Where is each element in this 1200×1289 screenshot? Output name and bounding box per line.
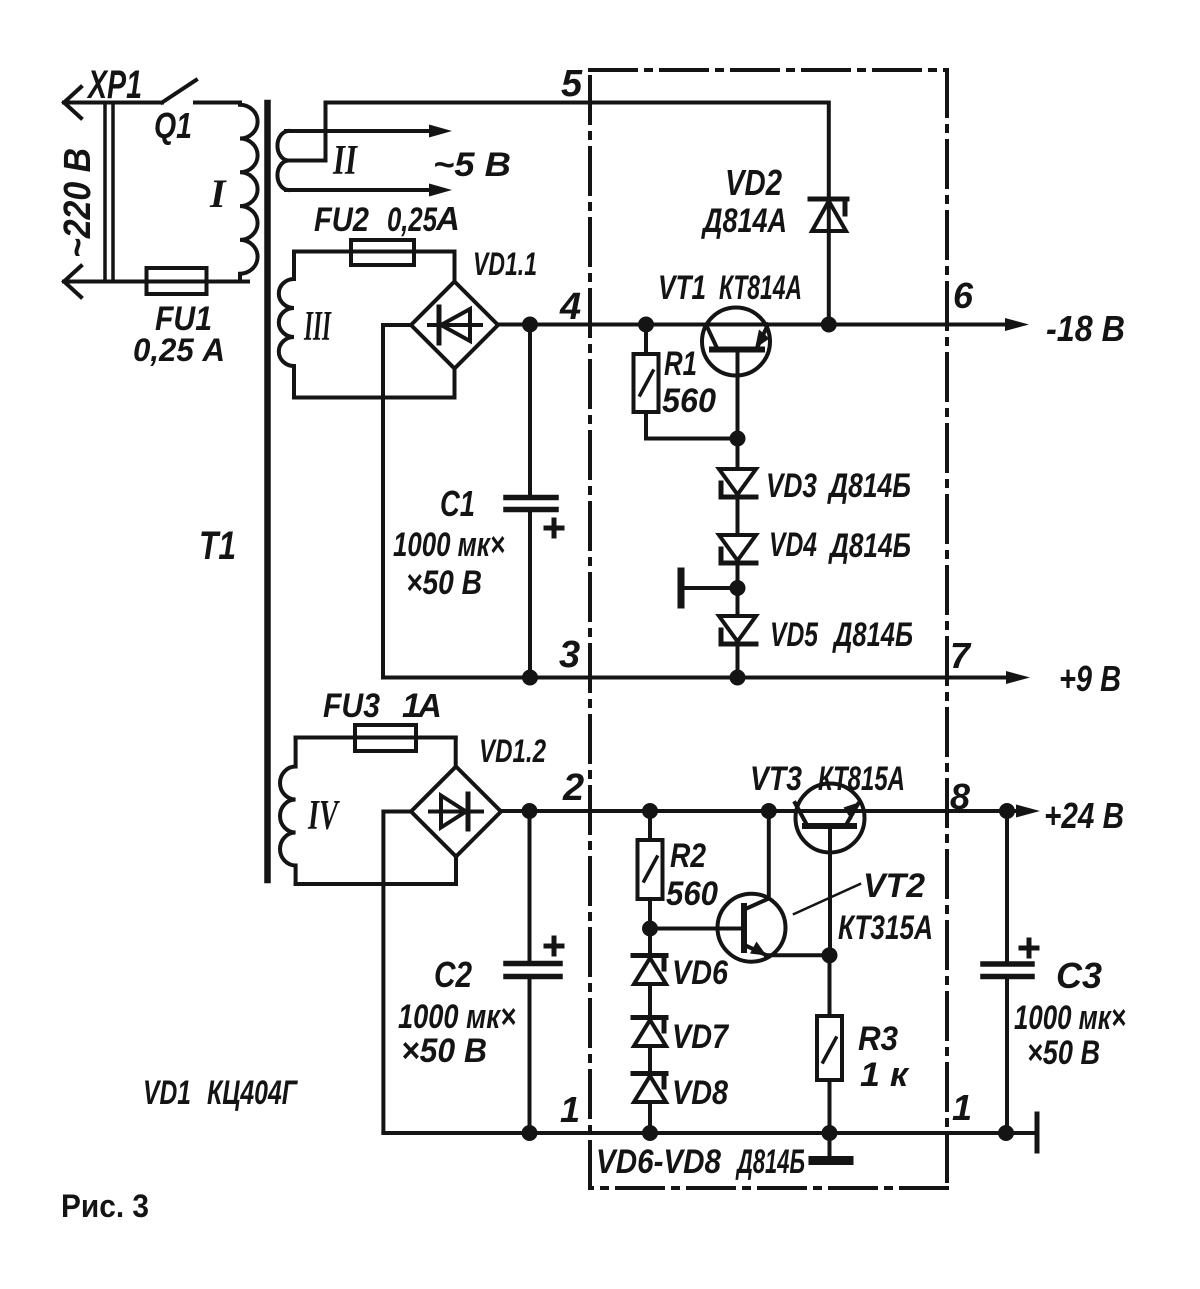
arrow ~5V top — [429, 125, 452, 138]
wire FU2 to bridge top — [453, 252, 457, 282]
junction C1 bottom — [522, 670, 538, 686]
svg-text:II: II — [332, 138, 358, 184]
wire winding II tap to node 5 — [288, 103, 326, 161]
chassis bar right end — [1035, 1114, 1040, 1151]
svg-text:Д814Б: Д814Б — [827, 467, 911, 505]
svg-text:560: 560 — [666, 875, 718, 913]
svg-text:FU3: FU3 — [323, 687, 380, 725]
zener VD5 — [719, 616, 756, 642]
junction R2 top — [642, 803, 658, 819]
transistor VT2 — [718, 894, 786, 962]
fuse FU2 — [351, 240, 414, 265]
wire output ~5V bottom — [286, 188, 433, 192]
wire R1 to VD3 node — [646, 437, 738, 441]
fuse FU1 — [147, 268, 207, 294]
wire mains bottom — [64, 280, 248, 284]
arrow -18V — [1005, 318, 1029, 331]
svg-text:+9 В: +9 В — [1059, 658, 1121, 699]
wire VT3 base down — [828, 828, 832, 955]
wire output ~5V top — [286, 129, 433, 133]
wire bridge VD1.2 minus down — [383, 812, 411, 1134]
svg-text:×50 В: ×50 В — [1027, 1034, 1100, 1072]
junction C3 bottom — [998, 1125, 1014, 1141]
svg-text:FU2: FU2 — [314, 201, 369, 239]
svg-text:Д814Б: Д814Б — [832, 616, 913, 654]
arrow +24V — [1016, 805, 1040, 818]
svg-text:КТ315А: КТ315А — [838, 909, 933, 947]
svg-text:R1: R1 — [664, 345, 697, 383]
svg-text:1000 мк×: 1000 мк× — [1014, 999, 1126, 1037]
svg-text:1: 1 — [952, 1087, 972, 1128]
svg-text:VD4: VD4 — [769, 526, 817, 564]
svg-text:2: 2 — [562, 767, 584, 809]
resistor R1 — [644, 325, 648, 355]
transistor VT3 — [796, 784, 865, 853]
junction chassis tap node — [730, 580, 746, 596]
arrow +9V — [1006, 671, 1030, 684]
svg-text:0,25: 0,25 — [387, 201, 438, 239]
fuse FU3 — [355, 725, 416, 751]
svg-text:~220 В: ~220 В — [57, 148, 99, 258]
arrow ~5V bottom — [429, 184, 452, 197]
wire VD2 to collector line — [827, 231, 831, 325]
chassis tap at VD4-VD5 node — [682, 586, 738, 590]
svg-text:Д814А: Д814А — [701, 202, 787, 240]
polarity plus C2 — [546, 944, 562, 949]
svg-text:Рис. 3: Рис. 3 — [61, 1188, 149, 1224]
zener VD7 — [648, 984, 652, 1018]
junction R2 bottom — [642, 921, 658, 937]
diode inside VD1.1 — [429, 323, 481, 327]
svg-text:VD6: VD6 — [672, 954, 729, 992]
svg-text:VD1: VD1 — [143, 1074, 191, 1112]
svg-text:4: 4 — [559, 286, 581, 328]
wire node 3 to +9V — [383, 676, 1010, 680]
resistor R2 — [648, 811, 652, 840]
junction R3 bottom — [822, 1125, 838, 1141]
wire mains top — [64, 101, 162, 105]
svg-text:5: 5 — [561, 63, 583, 105]
svg-text:7: 7 — [950, 635, 972, 676]
svg-text:R3: R3 — [858, 1020, 898, 1058]
svg-text:КТ814А: КТ814А — [719, 269, 802, 307]
transformer T1 winding IV — [280, 738, 296, 885]
wire FU3 to bridge top — [454, 738, 458, 767]
svg-text:КЦ404Г: КЦ404Г — [207, 1074, 299, 1112]
svg-text:6: 6 — [953, 275, 974, 316]
rectifier bridge VD1.2 — [411, 767, 501, 857]
svg-text:VD7: VD7 — [672, 1018, 730, 1056]
svg-text:C1: C1 — [440, 483, 475, 524]
diode inside VD1.2 — [430, 810, 482, 814]
junction VD8 bottom — [642, 1125, 658, 1141]
svg-text:C3: C3 — [1056, 955, 1102, 996]
switch Q1 — [162, 80, 196, 103]
svg-text:8: 8 — [950, 776, 970, 817]
svg-text:T1: T1 — [199, 524, 236, 568]
polarity plus C1 — [546, 526, 562, 531]
capacitor C1 — [528, 325, 532, 496]
svg-text:C2: C2 — [434, 954, 472, 995]
junction VD5 bottom — [730, 670, 746, 686]
ground symbol at R3 — [828, 1133, 832, 1157]
svg-text:VD5: VD5 — [770, 616, 819, 654]
wire bridge VD1.1 minus down — [383, 325, 411, 678]
svg-text:+24 В: +24 В — [1044, 795, 1124, 836]
wire node 5 — [326, 103, 829, 200]
wire winding III top to FU2 — [294, 250, 455, 254]
zener VD6 — [648, 929, 652, 956]
svg-text:А: А — [417, 687, 442, 724]
svg-text:III: III — [303, 304, 331, 350]
wire VD4 to VD5 — [736, 565, 740, 616]
svg-text:1: 1 — [560, 1089, 580, 1130]
svg-text:Д814Б: Д814Б — [735, 1143, 805, 1181]
transformer T1 winding III — [279, 252, 294, 398]
junction C3 top — [999, 803, 1015, 819]
svg-text:Д814Б: Д814Б — [828, 527, 911, 565]
connector XP1 plug lines — [103, 103, 107, 282]
capacitor C2 — [528, 811, 532, 961]
svg-text:VD1.2: VD1.2 — [479, 733, 546, 769]
svg-text:IV: IV — [307, 793, 340, 839]
svg-text:VD3: VD3 — [766, 467, 817, 505]
svg-text:VD2: VD2 — [725, 162, 782, 203]
junction VD2 node — [821, 317, 837, 333]
wire node 2 to +24V — [501, 809, 1020, 813]
transformer T1 winding II — [277, 131, 288, 190]
svg-text:Q1: Q1 — [154, 105, 192, 146]
transistor VT1 — [702, 308, 770, 376]
junction VT1 base node — [730, 431, 746, 447]
svg-text:~5 В: ~5 В — [433, 146, 511, 184]
junction R1 top — [638, 317, 654, 333]
svg-text:×50 В: ×50 В — [401, 1032, 487, 1070]
capacitor C3 — [1005, 811, 1009, 962]
svg-text:560: 560 — [662, 382, 716, 420]
wire node 4 to -18V — [498, 323, 1010, 327]
wire VT1 base down — [736, 352, 740, 439]
svg-text:КТ815А: КТ815А — [818, 760, 905, 798]
svg-text:0,25 А: 0,25 А — [133, 332, 225, 368]
svg-text:1000 мк×: 1000 мк× — [398, 998, 516, 1036]
svg-text:1000 мк×: 1000 мк× — [393, 526, 505, 564]
wire node 1 — [383, 1131, 1037, 1135]
svg-text:×50 В: ×50 В — [406, 564, 482, 602]
transformer T1 core — [264, 103, 271, 880]
junction C2 top — [522, 803, 538, 819]
zener VD4 — [736, 499, 740, 535]
svg-text:А: А — [435, 200, 460, 237]
junction C1 top — [522, 317, 538, 333]
zener VD2 — [827, 199, 831, 231]
svg-text:1 к: 1 к — [860, 1056, 910, 1094]
svg-text:VT1: VT1 — [658, 269, 706, 307]
wire winding III bottom to bridge bottom — [294, 369, 455, 398]
wire winding IV bottom to bridge bottom — [296, 857, 456, 885]
svg-text:VD1.1: VD1.1 — [473, 246, 537, 282]
zener VD8 — [648, 1046, 652, 1074]
wire R2 to VT2 base — [650, 927, 744, 931]
junction C2 bottom — [522, 1125, 538, 1141]
resistor R3 — [828, 955, 832, 1016]
callout line VT2 — [794, 884, 860, 914]
zener VD3 — [736, 439, 740, 470]
svg-text:XP1: XP1 — [87, 63, 142, 107]
wire VT2 collector up — [767, 811, 771, 899]
node XP1 arrow bottom — [64, 266, 81, 297]
dash-dot module border — [590, 70, 947, 1188]
node XP1 arrow top — [64, 87, 81, 118]
svg-text:VD8: VD8 — [672, 1074, 728, 1112]
polarity plus C3 — [1021, 946, 1037, 951]
wire VT2 emitter to VT3 base node — [766, 953, 830, 957]
junction VT2 collector — [761, 803, 777, 819]
svg-text:VT3: VT3 — [750, 760, 802, 798]
svg-text:R2: R2 — [670, 837, 706, 875]
junction VT3 base node — [822, 947, 838, 963]
svg-text:-18 В: -18 В — [1046, 308, 1125, 349]
svg-text:VD6-VD8: VD6-VD8 — [596, 1143, 721, 1181]
transformer T1 winding I — [240, 103, 258, 282]
rectifier bridge VD1.1 — [411, 282, 498, 369]
svg-text:3: 3 — [559, 634, 580, 676]
wire winding IV top to FU3 — [296, 736, 456, 740]
svg-text:VT2: VT2 — [863, 867, 925, 905]
svg-text:I: I — [209, 171, 227, 216]
